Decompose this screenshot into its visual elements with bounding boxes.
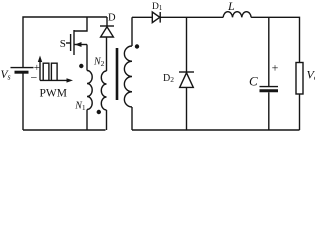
PWM pulse waveform: [43, 63, 49, 80]
transistor S gate lead: [66, 42, 71, 44]
transistor S source lead with arrow: [74, 44, 87, 46]
svg-text:PWM: PWM: [40, 88, 67, 100]
node dot N1 top: [79, 64, 83, 68]
diode D cathode drop from rail: [106, 17, 108, 26]
transformer core bar: [116, 48, 119, 100]
capacitor C bottom lead: [268, 92, 270, 130]
battery Vs plate short: [15, 71, 29, 74]
PWM y-axis arrow: [39, 59, 41, 81]
svg-text:L: L: [227, 0, 235, 13]
svg-text:N1: N1: [74, 101, 86, 113]
node dot secondary top: [135, 44, 139, 48]
capacitor C top lead: [268, 17, 270, 86]
diode D2 triangle: [180, 73, 194, 88]
resistor load box: [296, 63, 303, 95]
wire: N1 bottom lead: [86, 110, 88, 131]
wire: load bottom to rail: [299, 94, 301, 130]
capacitor C top plate: [260, 86, 279, 88]
wire: D1 cathode to L: [160, 16, 223, 18]
wire: source to N1 top: [86, 45, 88, 71]
diode D2 cathode bar: [179, 71, 194, 73]
PWM x-axis arrow: [40, 79, 70, 81]
wire: primary bottom rail: [23, 129, 106, 131]
wire: primary left rail bottom: [22, 74, 24, 131]
svg-text:+: +: [272, 61, 279, 75]
winding secondary: [124, 46, 132, 107]
transistor Q (switch S) drain wire: [74, 17, 87, 31]
transistor S channel bar: [73, 30, 75, 55]
winding N2: [101, 71, 106, 110]
winding N1: [87, 71, 92, 110]
capacitor C bottom plate: [260, 89, 279, 92]
node dot N2 bottom: [97, 110, 101, 114]
wire: secondary top rail to D1: [132, 16, 152, 18]
svg-text:N2: N2: [93, 57, 105, 69]
diode D triangle: [101, 27, 114, 37]
battery Vs plate long: [11, 67, 34, 69]
wire: L to top-right corner, down right edge: [251, 17, 299, 62]
wire: N2 bottom lead: [106, 110, 108, 130]
svg-text:S: S: [60, 38, 66, 50]
inductor L: [223, 12, 251, 18]
wire: secondary bottom rail: [132, 129, 300, 131]
wire: D2 branch vertical: [186, 17, 188, 130]
diode D1 cathode bar: [159, 12, 161, 23]
svg-text:D1: D1: [152, 2, 163, 12]
svg-text:C: C: [249, 74, 258, 89]
transistor S gate bar: [70, 34, 72, 51]
wire: primary top rail: [23, 17, 107, 68]
svg-text:Vo: Vo: [307, 68, 316, 83]
svg-text:−: −: [31, 70, 38, 84]
diode D1 triangle: [152, 12, 160, 23]
svg-text:D2: D2: [163, 73, 174, 84]
svg-text:D: D: [108, 13, 116, 24]
svg-text:Vs: Vs: [1, 69, 11, 82]
diode D cathode bar: [100, 25, 114, 27]
wire: secondary bottom lead: [131, 107, 133, 130]
wire: secondary top lead: [131, 17, 133, 46]
wire: D anode to N2 top: [106, 37, 108, 71]
